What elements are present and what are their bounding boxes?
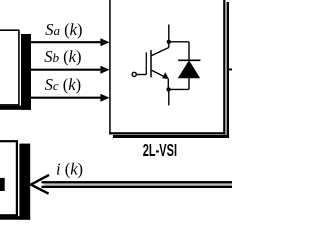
svg-text:Sb (k): Sb (k) <box>44 47 81 66</box>
svg-text:Sc (k): Sc (k) <box>45 75 81 94</box>
svg-text:Sa (k): Sa (k) <box>45 20 82 39</box>
svg-text:i (k): i (k) <box>56 160 83 179</box>
svg-text:2L-VSI: 2L-VSI <box>143 142 177 161</box>
